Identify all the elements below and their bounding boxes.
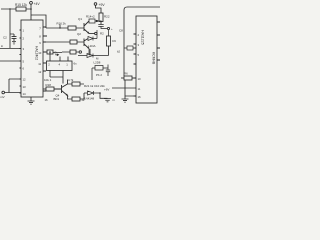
svg-text:R2: R2 (100, 32, 104, 36)
svg-text:11: 11 (138, 87, 141, 91)
resistor R22 vertical (99, 13, 103, 22)
svg-text:10: 10 (38, 51, 42, 55)
terminal +9V (94, 3, 97, 6)
svg-text:L1DA: L1DA (88, 44, 96, 48)
svg-text:R22: R22 (104, 15, 110, 19)
small box (47, 50, 53, 54)
svg-text:13: 13 (23, 85, 27, 89)
svg-text:11: 11 (38, 62, 41, 66)
svg-text:C9: C9 (112, 39, 116, 43)
wire base row 2 (y42) (46, 41, 84, 43)
svg-text:R18: R18 (46, 83, 52, 87)
terminal out1 (96, 20, 98, 22)
collector wire (68, 83, 85, 85)
U2 left pins (134, 34, 137, 96)
junction (99, 92, 101, 94)
junction node (30, 8, 32, 10)
svg-text:6x: 6x (74, 62, 78, 66)
U1 left pins (20, 30, 22, 93)
transistor Q1 (84, 21, 89, 34)
svg-text:R16 2k: R16 2k (57, 22, 67, 26)
resistor R23 vertical (107, 36, 111, 46)
wires below VR1 (50, 71, 63, 84)
capacitor C4 plates (98, 25, 107, 29)
diode D2 (84, 91, 100, 95)
resistor R18 (to Q3 base) (43, 88, 46, 90)
small box on pin wire (124, 47, 127, 49)
U2 right pins (157, 22, 160, 60)
wire bottom-left input (5, 79, 22, 93)
svg-text:R6: R6 (124, 72, 128, 76)
terminal (79, 51, 81, 53)
wire into pin y88 (112, 87, 136, 89)
wire down to diode row (108, 46, 110, 56)
svg-text:R21 1k C10 22k: R21 1k C10 22k (84, 84, 105, 88)
resistor R24 to pin (121, 77, 124, 79)
long top wire to right (124, 7, 160, 30)
ground symbol (104, 99, 111, 102)
capacitor C2 (10, 34, 17, 41)
diode on collector (88, 30, 97, 55)
emitter wire (68, 93, 85, 99)
svg-text:HA11225: HA11225 (141, 30, 145, 45)
diode D1 (78, 54, 109, 58)
svg-text:Pb 2: Pb 2 (96, 73, 102, 77)
resistor R15 (16, 7, 26, 11)
resistor R19 (72, 82, 80, 86)
terminal +4V (30, 1, 33, 4)
middle box VR1 (47, 61, 73, 71)
transistor Q2 (84, 39, 89, 49)
svg-text:Q2: Q2 (77, 32, 81, 36)
svg-text:12: 12 (23, 78, 27, 82)
wire left drop vertical (9, 9, 11, 48)
svg-text:Q1: Q1 (78, 17, 82, 21)
svg-text:+4V: +4V (34, 2, 41, 6)
wire supply to right pins (31, 15, 46, 28)
svg-text:R15 12k: R15 12k (15, 3, 27, 7)
wire continue + junction (95, 21, 101, 24)
U1 right pins (43, 27, 47, 91)
transistor Q3 (54, 80, 68, 96)
right vertical feed (123, 30, 125, 76)
wire from +4V down to IC (30, 4, 32, 20)
svg-text:D: D (55, 51, 57, 55)
svg-text:+6V: +6V (104, 88, 109, 92)
svg-text:4.7k: 4.7k (68, 78, 74, 82)
svg-text:12: 12 (38, 70, 42, 74)
svg-text:R14+2: R14+2 (86, 15, 95, 19)
svg-text:b2: b2 (117, 50, 121, 54)
IC U2 box (136, 16, 157, 103)
resistor R17 (70, 40, 77, 44)
ground under U1 (28, 97, 35, 104)
wire row y52 (43, 51, 47, 53)
svg-text:BD1: BD1 (54, 97, 60, 101)
wire left input 2 (0, 60, 21, 62)
svg-text:14: 14 (23, 92, 27, 96)
terminal out2 (95, 32, 97, 34)
wire to ground (100, 93, 108, 98)
junction (9, 8, 10, 9)
svg-text:+9V: +9V (99, 3, 106, 7)
resistor R20 (72, 97, 80, 101)
svg-text:10: 10 (138, 77, 142, 81)
box on collector (89, 19, 95, 23)
svg-text:C2: C2 (3, 36, 7, 40)
terminal input (2, 91, 5, 94)
wire top-left horizontal (1, 8, 31, 10)
wire left input 1 (0, 48, 21, 50)
svg-text:16: 16 (138, 95, 142, 99)
IC U1 box (21, 20, 43, 97)
resistor R16 (68, 26, 76, 30)
wire base row 1 (y27) (46, 25, 84, 29)
svg-text:mV: mV (0, 95, 5, 99)
ground right (122, 96, 137, 102)
svg-text:L2D8: L2D8 (94, 61, 101, 65)
svg-text:1N4148: 1N4148 (84, 97, 95, 101)
svg-text:10k 1: 10k 1 (44, 78, 52, 82)
svg-text:16: 16 (45, 98, 49, 102)
svg-text:KCMHB: KCMHB (152, 52, 156, 65)
wire down to ground (124, 80, 126, 99)
small box 2 (70, 50, 76, 54)
svg-text:C8: C8 (119, 29, 123, 33)
wire from +9V (96, 5, 102, 13)
